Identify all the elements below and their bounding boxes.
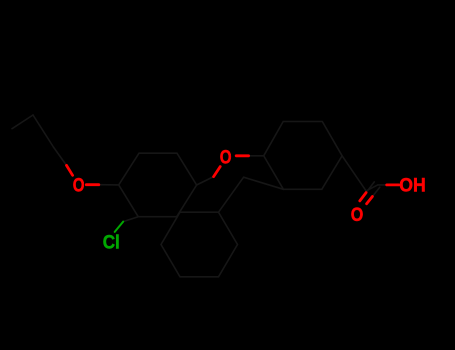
ring B benzene [264, 122, 342, 190]
svg-text:OH: OH [399, 174, 425, 196]
ring A benzene [119, 153, 197, 217]
wire chain C3-C2 [33, 115, 53, 147]
wire C-OH red half [387, 183, 399, 186]
svg-text:Cl: Cl [103, 232, 120, 253]
wire central O to ring B gray half [249, 155, 264, 157]
wire central O down-left red half [214, 167, 221, 177]
wire CH2-O gray half [53, 147, 66, 165]
wire Cl bond gray half [123, 217, 138, 222]
wire central O right red half [236, 154, 248, 157]
wire ringA V4 to central O gray half [197, 177, 214, 185]
wire propyl chain terminal bond [12, 115, 33, 129]
svg-text:O: O [351, 204, 364, 226]
wire CH2-O red half [67, 165, 73, 175]
ring C benzene [161, 212, 238, 277]
wire ringB to CH2 [342, 156, 366, 191]
svg-text:O: O [73, 174, 85, 196]
wire O-ringA gray half [99, 184, 119, 186]
wire ring C to kink CH2 [219, 177, 244, 212]
wire C=O double bond gray halves [366, 182, 380, 197]
wire C=O double bond red halves [360, 193, 373, 204]
wire O-ringA red half [86, 183, 99, 186]
wire Cl bond green half [115, 222, 124, 232]
wire CH2 to carboxyl C [366, 185, 378, 191]
svg-text:O: O [220, 146, 232, 168]
wire kink CH2 to ring B BL [244, 177, 284, 189]
wire carboxyl C to OH gray half [378, 184, 387, 186]
